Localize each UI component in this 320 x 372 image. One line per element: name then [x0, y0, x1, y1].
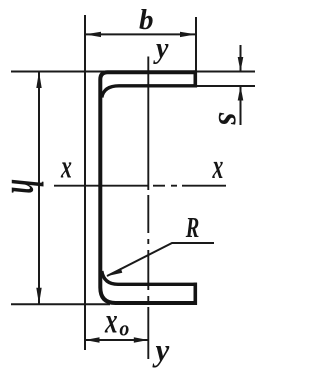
- dimension s lower arrowhead: [238, 86, 244, 101]
- channel inner top flange face with radius R: [102, 86, 197, 98]
- svg-text:b: b: [139, 4, 154, 36]
- radius R leader arrowhead: [107, 268, 123, 276]
- dimension h bottom arrowhead: [36, 288, 41, 305]
- radius R leader line: [107, 243, 214, 276]
- svg-text:y: y: [153, 32, 169, 65]
- dimension b right arrowhead: [180, 32, 196, 37]
- svg-text:R: R: [185, 212, 199, 243]
- dimension h top arrowhead: [36, 72, 41, 89]
- dimension x0 line: [85, 339, 148, 341]
- axis x-x dash-dot line: [54, 185, 148, 187]
- channel top flange tip: [194, 70, 198, 87]
- extension line top (for b / h / s): [11, 71, 255, 73]
- channel bottom flange tip: [194, 283, 198, 305]
- extension line inner-top right (for s): [197, 85, 255, 87]
- svg-text:o: o: [119, 316, 129, 341]
- svg-text:s: s: [211, 112, 249, 126]
- dimension x0 right arrowhead: [134, 337, 149, 343]
- svg-text:x: x: [104, 300, 117, 341]
- dimension h line: [38, 72, 40, 305]
- channel inner bottom flange face with radius R: [102, 271, 197, 284]
- svg-text:h: h: [2, 179, 52, 194]
- axis y-y dash-dot line: [147, 57, 149, 360]
- dimension b line: [85, 33, 196, 35]
- extension line right vertical at flange tip (for b): [195, 17, 197, 72]
- svg-text:x: x: [60, 149, 72, 186]
- svg-text:x: x: [212, 148, 224, 186]
- extension line left vertical (for b / x0): [84, 15, 86, 350]
- dimension x0 left arrowhead: [85, 337, 100, 343]
- dimension s upper arrowhead: [238, 57, 244, 72]
- channel outer contour (web + outer flange faces): [100, 72, 197, 303]
- dimension b left arrowhead: [85, 32, 101, 37]
- extension line bottom (for h / x0): [11, 303, 110, 305]
- dimension s lower line: [240, 86, 242, 125]
- dimension s upper line: [240, 45, 242, 72]
